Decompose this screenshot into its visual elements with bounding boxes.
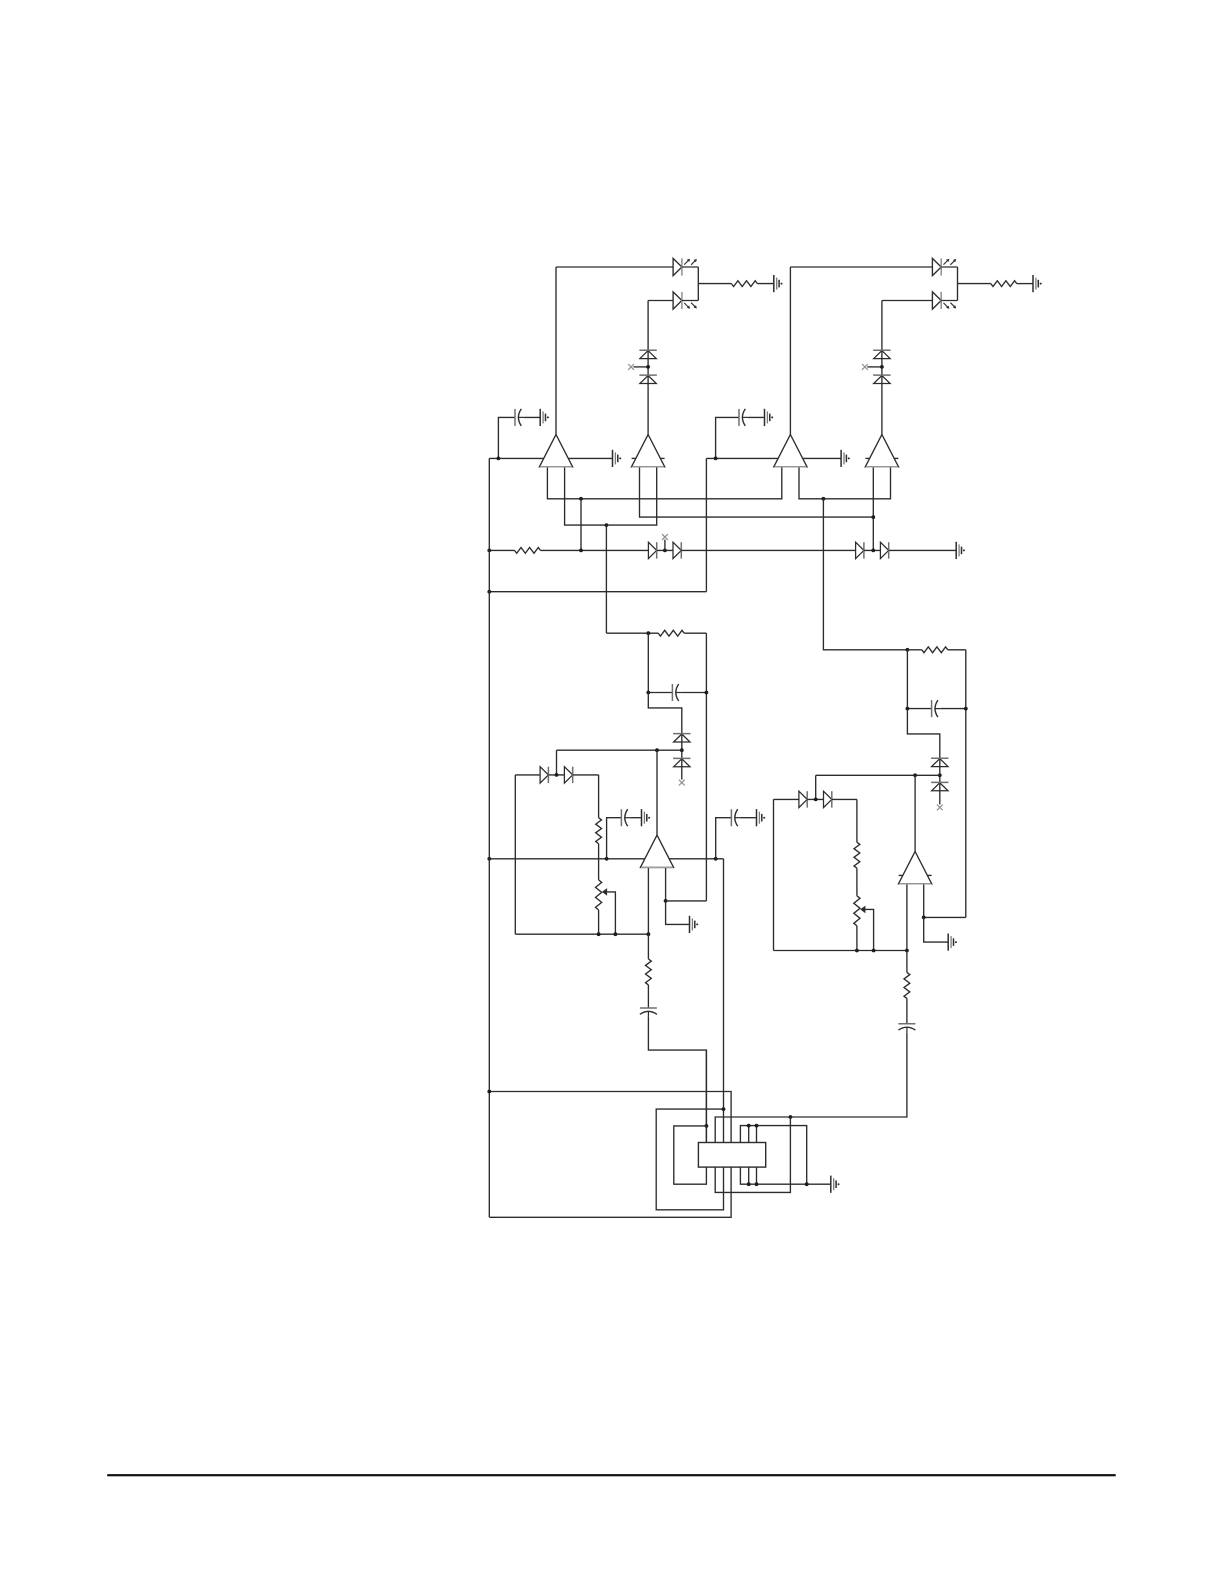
- wire R5 to pot: [598, 844, 600, 880]
- wire U3 input line: [706, 457, 780, 459]
- ground: [948, 934, 957, 951]
- wire right pot to bottom: [856, 926, 858, 951]
- wire RC cap lead: [648, 692, 672, 694]
- potentiometer P2 wiper arrow: [860, 906, 865, 914]
- diode D19: [799, 791, 807, 807]
- junction bus/diode line: [487, 549, 491, 553]
- wire right cap lead: [907, 708, 931, 710]
- wire bias tap drop: [580, 499, 582, 551]
- wire RC top left: [606, 632, 658, 634]
- wire shield pin 7 top: [756, 1126, 758, 1143]
- wire U1 right input to ground: [566, 457, 612, 459]
- resistor R8: [854, 842, 860, 868]
- wire chain R lead: [647, 934, 649, 959]
- wire R8 to pot: [856, 868, 858, 896]
- wire main line drop: [723, 859, 725, 1143]
- wire op-amp U4 output to LED D4 anode: [882, 300, 933, 302]
- ground: [831, 1176, 840, 1193]
- wire shield pin 6 bottom: [748, 1167, 750, 1184]
- ground: [956, 542, 965, 559]
- junction C7 left: [906, 707, 910, 711]
- ground: [774, 275, 783, 292]
- wire U2 left leg bus: [640, 467, 874, 517]
- wire D12 to ground: [889, 549, 956, 551]
- op-amp U3: [774, 435, 807, 467]
- wire U1 left leg: [547, 467, 781, 499]
- wire RC left side: [647, 633, 649, 692]
- wire C5 to ground: [740, 817, 756, 819]
- junction right RC top: [906, 648, 910, 652]
- junction C7 right: [964, 707, 968, 711]
- diode D9: [648, 542, 656, 558]
- wire U5 right leg to RC: [666, 900, 707, 902]
- wire LED D4 cathode: [941, 300, 957, 302]
- wire U6 leg ground jog: [924, 917, 948, 942]
- junction C3 right: [705, 691, 709, 695]
- LED D1: [673, 258, 697, 275]
- potentiometer P1: [596, 880, 602, 910]
- capacitor C7: [932, 700, 941, 717]
- junction diode stack mid: [646, 365, 650, 369]
- wire op-amp U3 output to LED D3 anode: [790, 266, 932, 268]
- no-connect mark: [679, 780, 685, 786]
- capacitor C8: [898, 1024, 915, 1033]
- junction U4 leg / bias bus: [871, 515, 875, 519]
- resistor R3: [515, 548, 541, 554]
- junction right fb mid: [814, 798, 818, 802]
- wire D9 to D10: [657, 549, 673, 551]
- wire LED common tap: [698, 283, 731, 285]
- diode D11: [856, 542, 864, 558]
- wire D15 to D16: [548, 774, 564, 776]
- wire U4 right input stub: [892, 457, 899, 459]
- diode D5: [639, 350, 656, 358]
- wire winding C top: [656, 1109, 723, 1210]
- wire U5 leg ground jog: [666, 901, 689, 925]
- wire shield pin 7 bottom: [756, 1167, 758, 1184]
- wire U5 output riser: [656, 750, 658, 835]
- resistor R6: [646, 959, 652, 985]
- wire LED D1 cathode: [682, 266, 698, 268]
- wire pot to bottom: [598, 910, 600, 934]
- wire R9 to C8: [906, 998, 908, 1023]
- capacitor C6: [640, 1008, 657, 1017]
- op-amp U6: [899, 852, 932, 884]
- wire right fb drop: [856, 799, 858, 842]
- junction wiper bottom: [614, 932, 618, 936]
- wire cap C5 riser: [716, 818, 732, 859]
- junction U6 right leg: [922, 916, 926, 920]
- capacitor C1: [515, 409, 524, 426]
- wire feedback drop: [556, 750, 558, 775]
- diode D8: [873, 375, 890, 383]
- LED D4: [932, 292, 956, 309]
- wire U1 right leg bus: [565, 467, 657, 525]
- wire bus to winding D top: [489, 1092, 731, 1143]
- junction main cap tap 1: [605, 857, 609, 861]
- wire D11 to D12: [864, 549, 881, 551]
- junction diode line tap: [579, 549, 583, 553]
- wire U2 output through diode stack: [647, 301, 649, 435]
- junction U5 right leg: [664, 899, 668, 903]
- transformer T1 body: [698, 1143, 765, 1168]
- junction winding B loop: [789, 1115, 793, 1119]
- wire R2 to ground: [1017, 283, 1033, 285]
- wire D16 to corner: [573, 774, 599, 776]
- wire LED D3 cathode: [941, 266, 957, 268]
- wire U5 main input line: [489, 858, 723, 860]
- wire U4 left input stub: [865, 457, 872, 459]
- wire op-amp U3 output riser: [789, 267, 791, 435]
- wire U2 right input stub: [658, 457, 665, 459]
- junction D9-D10 mid: [663, 549, 667, 553]
- resistor R5: [596, 818, 602, 844]
- diode D20: [824, 791, 832, 807]
- junction winding A: [705, 1124, 709, 1128]
- wire op-amp U1 output riser: [555, 267, 557, 435]
- junction U6 output: [913, 773, 917, 777]
- junction bus/main line: [487, 857, 491, 861]
- wire R6 to C6: [647, 985, 649, 1008]
- wire U1 input line: [489, 457, 546, 459]
- wire right feedback drop: [815, 775, 817, 799]
- wire stack NC stub: [634, 366, 649, 368]
- wire LED common tap right: [958, 283, 991, 285]
- wire mid NC stub: [664, 540, 666, 551]
- op-amp U4: [865, 435, 898, 467]
- wire shield pins bottom: [740, 1167, 830, 1184]
- wire R7 to corner: [948, 649, 966, 651]
- wire U3 right input to ground: [800, 457, 840, 459]
- ground: [1033, 275, 1042, 292]
- wire right bottom rail: [774, 950, 907, 952]
- junction fb diodes mid: [555, 773, 559, 777]
- junction rail/chain: [647, 932, 651, 936]
- wire right bias drop: [823, 499, 907, 650]
- wire right stack NC stub: [867, 366, 882, 368]
- no-connect mark: [662, 534, 668, 540]
- wire U6 left input stub: [899, 874, 906, 876]
- junction right mid stack: [938, 773, 942, 777]
- resistor R1: [731, 281, 757, 287]
- wire U6 right input stub: [925, 874, 932, 876]
- junction bus/winding D: [487, 1090, 491, 1094]
- wire left bus: [488, 458, 490, 1217]
- junction right bias tap: [822, 497, 826, 501]
- wire D20 to corner: [832, 798, 857, 800]
- wire C1 to ground: [524, 416, 540, 418]
- diode D17: [931, 758, 948, 766]
- potentiometer P2: [854, 896, 860, 926]
- wire RC jog to diode stack: [648, 693, 682, 780]
- junction winding C: [722, 1107, 726, 1111]
- wire U6 output line: [816, 774, 940, 776]
- diode D13: [673, 734, 690, 742]
- wire cap C4 riser: [607, 818, 622, 859]
- junction main cap tap 2: [714, 857, 718, 861]
- wire C3 to node: [681, 692, 706, 694]
- wire R3 to diode D9: [541, 549, 649, 551]
- junction right wiper bottom: [872, 949, 876, 953]
- wire U6 output riser: [914, 775, 916, 852]
- capacitor C4: [621, 809, 630, 826]
- diode D6: [639, 375, 656, 383]
- junction right diode stack mid: [880, 365, 884, 369]
- wire U5 left leg: [647, 867, 649, 934]
- diode D10: [673, 542, 681, 558]
- wire tap drop to RC: [605, 525, 607, 633]
- wire op-amp U2 output to LED D2 anode: [648, 300, 673, 302]
- wire wiper: [607, 892, 616, 934]
- wire right jog to stack: [907, 709, 939, 805]
- diode D14: [673, 758, 690, 766]
- potentiometer P1 wiper arrow: [602, 888, 607, 896]
- wire bus to winding D bottom: [489, 1167, 731, 1217]
- op-amp U5: [640, 835, 673, 867]
- LED D2: [673, 292, 697, 309]
- wire U6 left leg: [906, 884, 908, 951]
- wire R1 to ground: [757, 283, 773, 285]
- junction D11-D12 mid: [871, 549, 875, 553]
- junction bus feed: [487, 590, 491, 594]
- junction right rail/chain: [905, 949, 909, 953]
- wire fb left corner: [515, 774, 540, 776]
- wire bus feed to U3 input: [489, 591, 706, 593]
- wire U6 right leg to RC: [924, 916, 966, 918]
- junction U1-U2 bus tap: [605, 523, 609, 527]
- wire op-amp U1 output to LED D1 anode: [556, 266, 673, 268]
- wire D19 to D20: [807, 798, 823, 800]
- ground: [642, 809, 651, 826]
- wire left bottom rail: [515, 933, 648, 935]
- junction shield 6 top: [747, 1124, 751, 1128]
- wire U4 output through diode stack: [881, 301, 883, 435]
- wire U6 right leg: [923, 884, 925, 918]
- wire right wiper: [865, 909, 874, 950]
- wire C8 down to winding B: [715, 1033, 907, 1143]
- capacitor C3: [672, 684, 681, 701]
- wire fb right drop: [598, 775, 600, 818]
- wire right chain R lead: [906, 951, 908, 973]
- wire LED D2 cathode: [682, 300, 698, 302]
- diode D12: [880, 542, 888, 558]
- ground: [613, 450, 622, 467]
- capacitor C2: [739, 409, 748, 426]
- ground: [841, 450, 850, 467]
- wire C2 to ground: [748, 416, 764, 418]
- wire shield pin 6 top: [748, 1126, 750, 1143]
- capacitor C5: [731, 809, 740, 826]
- wire right fb corner: [774, 798, 800, 800]
- no-connect mark: [862, 364, 868, 370]
- wire R4 to corner: [684, 632, 706, 634]
- wire D10 to D11: [681, 549, 855, 551]
- diode D18: [931, 782, 948, 790]
- wire U2 left input stub: [632, 457, 639, 459]
- wire C6 down: [648, 1017, 706, 1143]
- wire bus to R3: [489, 549, 514, 551]
- resistor R9: [904, 972, 910, 998]
- ground: [690, 916, 699, 933]
- wire cap C1 branch riser: [498, 417, 515, 458]
- junction mid stack: [680, 748, 684, 752]
- wire right fb left side: [773, 799, 775, 950]
- wire U3 input riser: [705, 458, 707, 591]
- junction C1 tap: [497, 457, 501, 461]
- wire R7 leads: [907, 649, 921, 651]
- op-amp U2: [632, 435, 665, 467]
- junction right pot bottom: [855, 949, 859, 953]
- junction shield rails join: [805, 1182, 809, 1186]
- no-connect mark: [628, 364, 634, 370]
- wire right RC right side: [965, 650, 967, 918]
- wire U3 right leg bus: [799, 467, 891, 499]
- wire winding B loop: [715, 1117, 790, 1192]
- junction C2 tap: [714, 457, 718, 461]
- diode D15: [540, 767, 548, 783]
- wire shield pins top: [740, 1126, 806, 1185]
- wire cap C2 branch riser: [716, 417, 739, 458]
- diode D7: [873, 350, 890, 358]
- op-amp U1: [539, 435, 572, 467]
- wire winding A top: [705, 1050, 707, 1142]
- ground: [540, 409, 549, 426]
- junction pot bottom: [597, 932, 601, 936]
- ground: [757, 809, 766, 826]
- wire C7 to node: [940, 708, 965, 710]
- resistor R7: [922, 647, 948, 653]
- junction RC top: [646, 631, 650, 635]
- wire RC right side: [705, 633, 707, 901]
- wire U5 output line: [557, 749, 682, 751]
- wire U4 left leg: [872, 467, 874, 551]
- junction shield 7 top: [755, 1124, 759, 1128]
- resistor R2: [991, 281, 1017, 287]
- junction U5 output: [655, 748, 659, 752]
- wire U5 right leg: [665, 867, 667, 901]
- resistor R4: [658, 630, 684, 636]
- wire LED D1-D2 cathode join: [697, 267, 699, 301]
- ground: [765, 409, 774, 426]
- wire winding A loop: [674, 1126, 707, 1184]
- wire right RC left side: [906, 650, 908, 709]
- no-connect mark: [937, 805, 943, 811]
- LED D3: [932, 258, 956, 275]
- diode D16: [564, 767, 572, 783]
- junction shield 6 bottom: [747, 1182, 751, 1186]
- junction bias bus tap: [579, 497, 583, 501]
- page footer rule: [107, 1474, 1115, 1476]
- junction C3 left: [646, 691, 650, 695]
- wire C4 to ground: [630, 817, 641, 819]
- junction shield 7 bottom: [755, 1182, 759, 1186]
- wire LED D3-D4 cathode join: [957, 267, 959, 301]
- wire fb left side: [514, 775, 516, 934]
